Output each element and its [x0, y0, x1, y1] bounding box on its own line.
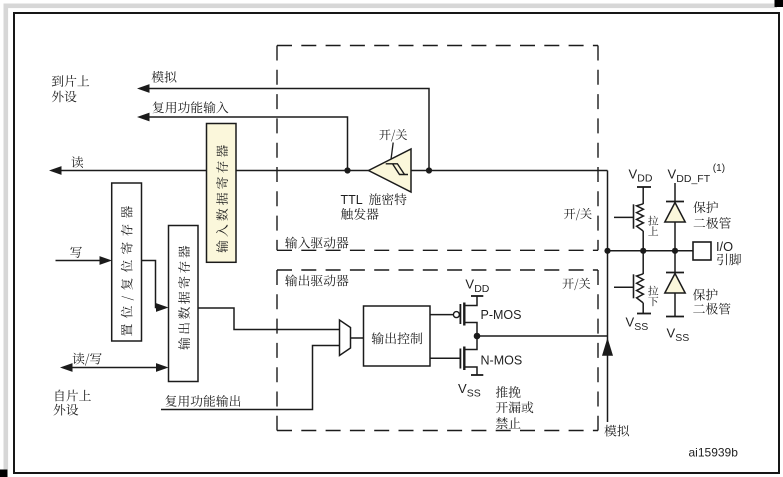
svg-text:V: V [629, 166, 638, 181]
svg-text:SS: SS [634, 321, 648, 333]
svg-text:V: V [626, 315, 635, 330]
svg-text:N-MOS: N-MOS [481, 354, 523, 368]
svg-text:DD_FT: DD_FT [676, 173, 710, 185]
svg-text:SS: SS [467, 387, 481, 399]
svg-text:ai15939b: ai15939b [689, 446, 739, 460]
svg-text:P-MOS: P-MOS [481, 308, 522, 322]
svg-text:V: V [667, 325, 676, 340]
svg-text:(1): (1) [713, 163, 725, 174]
svg-text:I/O: I/O [716, 239, 733, 254]
svg-text:DD: DD [637, 173, 653, 185]
svg-text:DD: DD [474, 283, 490, 295]
svg-text:V: V [668, 166, 677, 181]
svg-text:V: V [458, 381, 467, 396]
svg-text:TTL: TTL [341, 193, 363, 207]
svg-text:V: V [465, 276, 474, 291]
svg-text:SS: SS [675, 332, 689, 344]
